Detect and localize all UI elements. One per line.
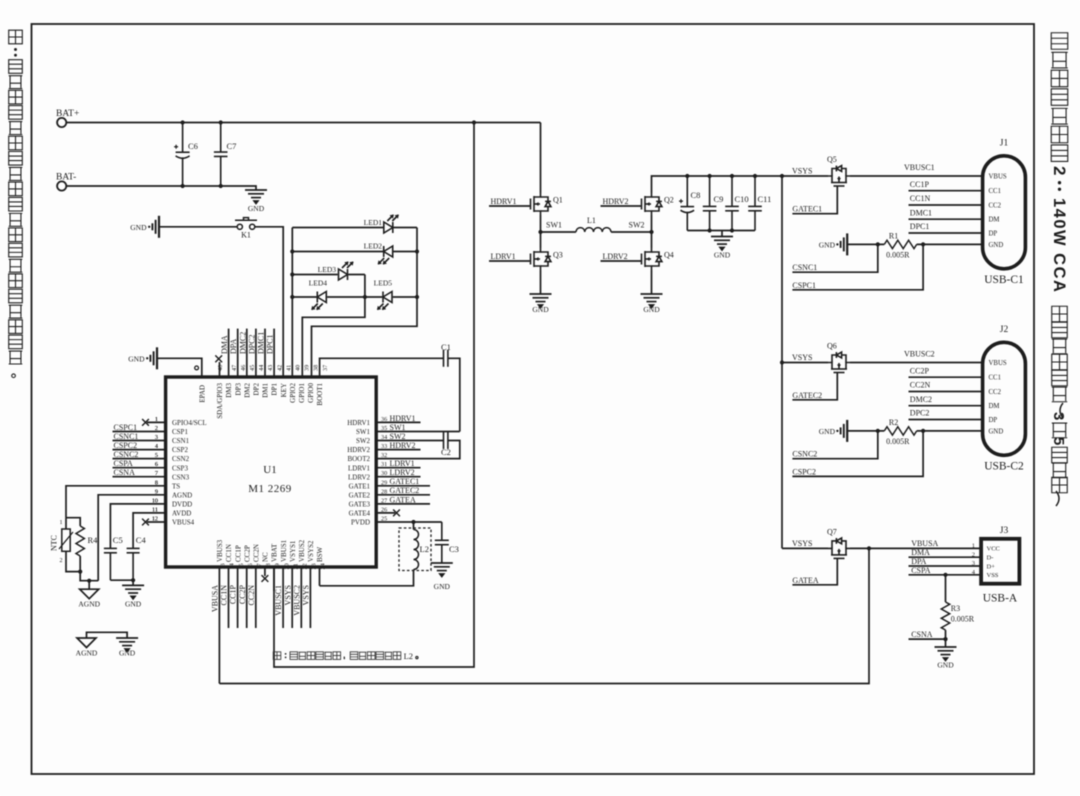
- svg-text:DPC1: DPC1: [910, 222, 930, 231]
- svg-text:LED3: LED3: [318, 265, 337, 274]
- svg-text:GND: GND: [989, 242, 1004, 249]
- svg-text:CC2N: CC2N: [910, 381, 931, 390]
- wire R2 left: [847, 430, 884, 432]
- svg-text:CSNC2: CSNC2: [792, 450, 817, 459]
- svg-text:SW2: SW2: [629, 221, 645, 230]
- wire LED rail left: [291, 228, 293, 378]
- svg-text:DPC2: DPC2: [910, 409, 930, 418]
- svg-text:CC2: CC2: [989, 389, 1002, 396]
- svg-text:CC1P: CC1P: [910, 180, 930, 189]
- wire GATEC1: [792, 188, 837, 214]
- svg-text:GATE3: GATE3: [349, 500, 371, 508]
- svg-text:3: 3: [1050, 412, 1067, 420]
- ground GND R3: [945, 639, 947, 647]
- svg-text:DP: DP: [989, 417, 998, 424]
- svg-text:21: 21: [292, 563, 299, 569]
- wire DPC1 net label: [273, 329, 275, 377]
- U1 pin1 stub NC: [147, 421, 166, 423]
- wire Q1 drain: [540, 123, 542, 194]
- wire LDRV2 gate: [601, 260, 641, 262]
- svg-text:HDRV1: HDRV1: [390, 414, 416, 423]
- svg-text:C7: C7: [227, 141, 237, 151]
- svg-text:GND: GND: [819, 240, 836, 249]
- svg-text:1: 1: [972, 543, 975, 550]
- svg-text:C10: C10: [735, 194, 749, 204]
- wire CSNC1 net label: [113, 440, 166, 442]
- svg-text:DMC2: DMC2: [238, 332, 247, 354]
- svg-text:HDRV1: HDRV1: [491, 197, 517, 206]
- svg-text:GND: GND: [119, 649, 136, 658]
- wire BOOT1 to C1: [320, 358, 444, 377]
- svg-text:GATEC1: GATEC1: [792, 205, 822, 214]
- svg-text:DPC1: DPC1: [266, 334, 275, 354]
- svg-text:GND: GND: [643, 305, 660, 314]
- left margin note title: [9, 30, 23, 377]
- svg-text:VBUSA: VBUSA: [211, 585, 220, 612]
- svg-text:GATE2: GATE2: [349, 491, 371, 499]
- svg-text:LED5: LED5: [374, 279, 393, 288]
- wire Q4 source: [651, 270, 653, 294]
- wire DPA: [909, 565, 982, 567]
- wire R1 left: [847, 243, 884, 245]
- svg-text:47: 47: [231, 365, 238, 371]
- wire LED row2: [292, 251, 383, 253]
- svg-text:C5: C5: [113, 535, 123, 545]
- svg-text:DMC1: DMC1: [910, 208, 932, 217]
- svg-text:VSYS1: VSYS1: [289, 540, 297, 562]
- svg-text:VBUSC2: VBUSC2: [292, 585, 301, 616]
- wire DMA: [909, 556, 982, 558]
- ground GND C3: [431, 563, 453, 577]
- svg-text:GATEC1: GATEC1: [390, 477, 420, 486]
- svg-text:VBUS1: VBUS1: [280, 539, 288, 562]
- wire CSPC1: [792, 244, 923, 289]
- resistor R3 0.005R: [945, 575, 947, 602]
- svg-text:LDRV1: LDRV1: [390, 459, 415, 468]
- svg-text:DP1: DP1: [271, 383, 279, 396]
- LED LED4: [311, 292, 326, 311]
- svg-text:BOOT1: BOOT1: [316, 383, 324, 406]
- svg-text:GPIO2: GPIO2: [289, 383, 297, 403]
- svg-text:VSYS: VSYS: [283, 585, 292, 605]
- svg-text:R1: R1: [889, 232, 898, 241]
- svg-text:VSS: VSS: [987, 572, 999, 579]
- wire LDRV1 gate: [489, 260, 529, 262]
- wire CC2P net label bottom: [246, 567, 248, 628]
- LED LED1: [384, 215, 399, 234]
- svg-text:VBUSC2: VBUSC2: [904, 350, 935, 359]
- wire HDRV2 net label: [376, 449, 420, 451]
- svg-text:C11: C11: [758, 194, 772, 204]
- U1 pin26 stub NC: [376, 512, 395, 514]
- wire CSNC2 net label: [113, 458, 166, 460]
- svg-text:SW1: SW1: [356, 428, 371, 436]
- capacitor C8: [685, 174, 689, 178]
- transistor Q5: [828, 166, 850, 188]
- svg-text:GND: GND: [714, 251, 731, 260]
- net tie AGND-GND: [87, 632, 128, 638]
- wire CC2N net label bottom: [255, 567, 257, 628]
- wire Q2 source: [651, 215, 653, 232]
- wire Q3 drain: [540, 232, 542, 248]
- wire LDRV2 net label: [376, 476, 420, 478]
- wire CSNA net label: [113, 476, 166, 478]
- capacitor C9: [708, 174, 712, 178]
- wire PVDD to L2 C3: [376, 521, 442, 523]
- wire Q3 source: [540, 270, 542, 294]
- wire LED row3 right: [348, 274, 365, 276]
- wire BSW pin24: [319, 567, 321, 586]
- svg-text:LDRV1: LDRV1: [491, 252, 516, 261]
- svg-text:AVDD: AVDD: [172, 510, 191, 518]
- svg-text:DVDD: DVDD: [172, 500, 192, 508]
- svg-text:AGND: AGND: [78, 600, 100, 609]
- svg-text:0.005R: 0.005R: [886, 251, 910, 260]
- wire EPAD: [157, 358, 202, 376]
- svg-text:CSP1: CSP1: [172, 428, 188, 436]
- svg-text:VBUSC1: VBUSC1: [274, 585, 283, 616]
- svg-text:CC1: CC1: [989, 188, 1001, 195]
- svg-text:K1: K1: [241, 231, 251, 240]
- wire CSPA net label: [113, 467, 166, 469]
- svg-text:CSPA: CSPA: [114, 459, 134, 468]
- svg-text:DP2: DP2: [253, 383, 261, 396]
- capacitor C3: [435, 522, 449, 563]
- wire CC2P: [909, 376, 983, 378]
- svg-text:CC1P: CC1P: [229, 584, 238, 604]
- svg-text:VBUSA: VBUSA: [911, 539, 938, 548]
- svg-text:LDRV2: LDRV2: [390, 468, 415, 477]
- connector J3 USB-A: [981, 539, 1019, 584]
- svg-text:22: 22: [302, 563, 309, 569]
- ground AGND sense: [88, 581, 90, 590]
- wire SW1 to L1: [541, 231, 577, 233]
- svg-text:DM: DM: [989, 217, 1000, 224]
- svg-text:2: 2: [60, 558, 63, 564]
- connector J1 USB-C1: [983, 156, 1026, 269]
- svg-text:NC: NC: [262, 552, 270, 562]
- svg-text:CSN3: CSN3: [172, 473, 190, 481]
- svg-text:43: 43: [267, 365, 274, 371]
- wire HDRV1 net label: [376, 421, 420, 423]
- svg-text:USB-A: USB-A: [983, 593, 1018, 605]
- svg-text:18: 18: [265, 563, 272, 569]
- wire LED row4 mid: [327, 296, 382, 298]
- push button K1: [235, 218, 257, 230]
- svg-text:2: 2: [155, 425, 158, 432]
- wire Q6 out VBUSC2: [850, 362, 983, 364]
- svg-text:CC2N: CC2N: [253, 544, 261, 562]
- svg-text:AGND: AGND: [76, 649, 98, 658]
- svg-text:GND: GND: [248, 204, 265, 213]
- svg-text:SW1: SW1: [390, 423, 406, 432]
- svg-text:GND: GND: [125, 600, 142, 609]
- svg-text:C4: C4: [136, 535, 147, 545]
- svg-text:SW2: SW2: [390, 432, 406, 441]
- svg-text:14: 14: [229, 563, 236, 569]
- wire CC1P net label bottom: [237, 567, 239, 628]
- wire KEY net: [255, 227, 283, 377]
- svg-text:R2: R2: [889, 418, 898, 427]
- ground GND output caps: [721, 231, 723, 237]
- wire DMA net label: [228, 329, 230, 377]
- wire LED row3: [292, 274, 337, 276]
- svg-text:Q1: Q1: [553, 196, 563, 205]
- ground GND Q3: [530, 294, 552, 308]
- transistor Q4: [640, 248, 662, 270]
- svg-text:Q3: Q3: [553, 251, 563, 260]
- wire VBAT down: [274, 123, 474, 668]
- svg-text:1: 1: [155, 416, 158, 423]
- svg-text:LED2: LED2: [364, 242, 383, 251]
- svg-text:BOOT2: BOOT2: [347, 455, 370, 463]
- svg-text:0.005R: 0.005R: [951, 615, 975, 624]
- svg-text:VBUS3: VBUS3: [216, 539, 224, 562]
- wire SW2 pin34: [376, 440, 443, 442]
- svg-text:SDA/GPIO3: SDA/GPIO3: [216, 383, 224, 419]
- svg-text:Q5: Q5: [827, 155, 837, 164]
- svg-text:GND: GND: [130, 223, 147, 232]
- svg-text:PVDD: PVDD: [351, 519, 370, 527]
- inductor L2 optional: [399, 528, 431, 571]
- svg-text:38: 38: [313, 365, 320, 371]
- svg-text:DPA: DPA: [911, 557, 926, 566]
- svg-text:CSP3: CSP3: [172, 464, 188, 472]
- svg-text:2: 2: [1050, 166, 1069, 175]
- svg-text:8: 8: [155, 479, 158, 486]
- wire CSNC1: [792, 244, 877, 272]
- wire Q5 out VBUSC1: [850, 175, 983, 177]
- svg-text:GPIO4/SCL: GPIO4/SCL: [172, 419, 207, 427]
- svg-text:CC2P: CC2P: [243, 545, 251, 562]
- svg-text:GND: GND: [937, 661, 954, 670]
- svg-text:VBUSC1: VBUSC1: [904, 163, 935, 172]
- svg-text:U1: U1: [263, 464, 276, 476]
- LED LED2: [378, 246, 393, 265]
- svg-text:HDRV2: HDRV2: [603, 197, 629, 206]
- svg-text:37: 37: [322, 365, 329, 371]
- svg-text:VBUS: VBUS: [989, 360, 1007, 367]
- svg-text:VBUS2: VBUS2: [298, 539, 306, 562]
- wire DPC2: [909, 419, 983, 421]
- svg-text:GND: GND: [128, 355, 145, 364]
- wire CC2N: [909, 391, 983, 393]
- svg-text:CC2P: CC2P: [238, 584, 247, 604]
- wire DMC2 net label: [246, 329, 248, 377]
- svg-text:L2: L2: [404, 651, 413, 661]
- svg-text:16: 16: [247, 563, 254, 569]
- svg-text:5: 5: [1050, 437, 1067, 445]
- svg-text:VBAT: VBAT: [271, 543, 279, 562]
- wire GATEA net label: [376, 503, 430, 505]
- connector J2 USB-C2: [983, 342, 1026, 455]
- svg-text:CSNC1: CSNC1: [792, 263, 817, 272]
- wire LED right rail: [312, 228, 418, 378]
- svg-text:J3: J3: [1000, 526, 1009, 536]
- svg-text:USB-C2: USB-C2: [984, 461, 1024, 473]
- svg-text:C8: C8: [691, 190, 701, 200]
- U1 pin12 stub NC: [147, 521, 166, 523]
- wire CSNC2: [792, 431, 877, 459]
- svg-text:23: 23: [311, 563, 318, 569]
- wire VBUSC2 net label bottom: [300, 567, 302, 628]
- wire DMC1: [909, 218, 983, 220]
- svg-text:CSNC2: CSNC2: [114, 450, 139, 459]
- wire cap bottoms: [687, 230, 755, 232]
- svg-text:C6: C6: [188, 141, 198, 151]
- svg-text:CC1N: CC1N: [225, 544, 233, 562]
- svg-text:Q7: Q7: [827, 527, 837, 536]
- svg-text:VSYS: VSYS: [302, 585, 311, 605]
- svg-text:42: 42: [276, 365, 283, 371]
- svg-text:CSN1: CSN1: [172, 437, 190, 445]
- wire LED row4 right: [393, 296, 417, 298]
- svg-text:CSPC1: CSPC1: [114, 423, 138, 432]
- svg-text:15: 15: [238, 563, 245, 569]
- svg-text:CSPC2: CSPC2: [114, 441, 138, 450]
- svg-text:NTC: NTC: [50, 535, 59, 551]
- IC U1 body: [166, 377, 377, 567]
- wire C2 to BOOT2: [376, 441, 460, 459]
- right margin title: [1050, 33, 1069, 506]
- wire BAT- rail: [66, 186, 256, 190]
- svg-text:USB-C1: USB-C1: [984, 274, 1024, 286]
- capacitor C4: [127, 548, 140, 580]
- svg-text:LDRV2: LDRV2: [348, 473, 370, 481]
- wire DVDD pin10: [110, 504, 165, 548]
- svg-text:L1: L1: [587, 216, 596, 225]
- svg-text:BSW: BSW: [316, 546, 324, 562]
- wire VSYS net label bottom: [291, 567, 293, 628]
- thermistor NTC: [65, 518, 67, 529]
- terminal BAT-: [57, 181, 66, 190]
- svg-text:TS: TS: [172, 482, 180, 490]
- svg-text:CSN2: CSN2: [172, 455, 190, 463]
- svg-text:GND: GND: [819, 427, 836, 436]
- svg-text:GATE4: GATE4: [349, 510, 371, 518]
- svg-text:R4: R4: [88, 535, 99, 545]
- svg-text:KEY: KEY: [280, 383, 288, 397]
- svg-text:LDRV1: LDRV1: [348, 464, 370, 472]
- svg-text:J2: J2: [1000, 325, 1009, 335]
- svg-text:48: 48: [217, 365, 224, 371]
- svg-text:LDRV2: LDRV2: [603, 252, 628, 261]
- wire VSYS to Q6: [782, 362, 828, 364]
- svg-text:VBUS4: VBUS4: [172, 519, 195, 527]
- wire LED row4: [292, 296, 316, 298]
- wire GATEC2: [792, 374, 837, 400]
- wire TS net: [66, 486, 166, 518]
- svg-text:CSNA: CSNA: [911, 630, 933, 639]
- svg-text:CC1P: CC1P: [234, 545, 242, 562]
- wire VSYS net label bottom: [309, 567, 311, 628]
- wire GATEC1 net label: [376, 485, 430, 487]
- svg-text:CSNC1: CSNC1: [114, 432, 139, 441]
- wire DMC2: [909, 405, 983, 407]
- svg-text:VSYS2: VSYS2: [307, 540, 315, 562]
- svg-text:4: 4: [155, 443, 158, 450]
- svg-text:HDRV1: HDRV1: [347, 419, 370, 427]
- svg-text:M1 2269: M1 2269: [248, 483, 292, 495]
- wire AGND pin9: [98, 495, 165, 581]
- wire R2 right to J2 GND: [917, 430, 983, 432]
- svg-text:GATEA: GATEA: [792, 576, 818, 585]
- svg-text:GATEC2: GATEC2: [792, 391, 822, 400]
- svg-text:Q4: Q4: [664, 251, 674, 260]
- svg-text:DM3: DM3: [225, 383, 233, 398]
- svg-text:GATEC2: GATEC2: [390, 486, 420, 495]
- svg-text:DMA: DMA: [220, 335, 229, 354]
- svg-text:J1: J1: [1000, 139, 1009, 149]
- svg-text:DMC2: DMC2: [910, 395, 932, 404]
- transistor Q3: [529, 248, 551, 270]
- U1 pin18 stub NC: [264, 567, 266, 576]
- wire VBUSC1 net label bottom: [282, 567, 284, 628]
- svg-text:1: 1: [60, 520, 63, 526]
- svg-text:DP3: DP3: [234, 383, 242, 396]
- svg-text:140W CCA: 140W CCA: [1050, 198, 1068, 293]
- transistor Q2: [640, 193, 662, 215]
- svg-text:BAT+: BAT+: [56, 109, 79, 119]
- svg-text:9: 9: [155, 488, 158, 495]
- svg-text:D+: D+: [987, 563, 996, 570]
- svg-text:5: 5: [155, 452, 158, 459]
- wire CSPA: [909, 574, 982, 576]
- svg-text:CC2N: CC2N: [247, 585, 256, 606]
- wire Q2 drain to rail: [652, 176, 783, 193]
- svg-text:R3: R3: [951, 604, 960, 613]
- svg-text:6: 6: [155, 461, 158, 468]
- svg-text:2: 2: [972, 551, 975, 558]
- svg-text:CSPC2: CSPC2: [792, 467, 816, 476]
- svg-text:CSNA: CSNA: [114, 468, 136, 477]
- wire LED row1 right: [393, 227, 417, 229]
- wire GATEA: [792, 560, 837, 585]
- svg-text:VBUS: VBUS: [989, 174, 1007, 181]
- resistor R1 0.005R: [884, 240, 916, 248]
- svg-text:HDRV2: HDRV2: [347, 446, 370, 454]
- svg-text:VSYS: VSYS: [792, 539, 812, 548]
- wire VBUSA return: [219, 548, 869, 683]
- svg-text:GND: GND: [532, 305, 549, 314]
- svg-text:GND: GND: [434, 582, 451, 591]
- wire R1 right to J1 GND: [917, 243, 983, 245]
- capacitor C2: [444, 432, 448, 449]
- svg-text:L2: L2: [420, 544, 429, 554]
- transistor Q6: [828, 352, 850, 374]
- wire CSNA: [909, 638, 946, 640]
- U1 pin48 stub NC: [219, 362, 221, 377]
- svg-text:CSP2: CSP2: [172, 446, 188, 454]
- svg-text:DMA: DMA: [911, 548, 930, 557]
- wire Q7 out VBUSA: [850, 547, 981, 549]
- svg-text:DM2: DM2: [243, 383, 251, 398]
- svg-text:GPIO1: GPIO1: [298, 383, 306, 403]
- wire LDRV1 net label: [376, 467, 420, 469]
- svg-text:40: 40: [295, 365, 302, 371]
- svg-text:20: 20: [283, 563, 290, 569]
- svg-text:46: 46: [240, 365, 247, 371]
- wire LED row2 right: [393, 251, 417, 253]
- svg-text:GATEA: GATEA: [390, 495, 416, 504]
- wire VSYS to Q7: [782, 547, 828, 549]
- resistor R2 0.005R: [884, 427, 916, 435]
- LED LED5: [377, 292, 392, 311]
- node SW2: [649, 230, 653, 234]
- svg-text:19: 19: [274, 563, 281, 569]
- wire LED row1: [292, 227, 384, 229]
- svg-text:LED4: LED4: [309, 279, 328, 288]
